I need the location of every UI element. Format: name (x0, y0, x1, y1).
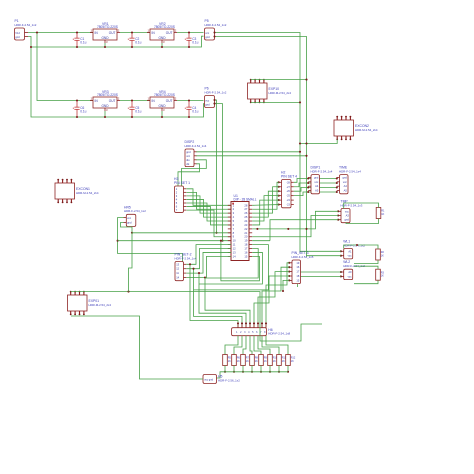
junction on pin22 wire 2 (287, 228, 289, 230)
junction TIME pin 1 (336, 177, 338, 179)
wire H6 pin4 to R8 (250, 336, 252, 355)
svg-text:gnd: gnd (127, 221, 132, 225)
wire wide inner loop to U1 pin15 (221, 241, 260, 281)
svg-text:HDR-M-2.54_2x4: HDR-M-2.54_2x4 (89, 303, 112, 307)
svg-text:0.1u: 0.1u (135, 40, 141, 44)
wire VR2 gnd to rail (161, 43, 163, 47)
wire WL2.A0 left (294, 272, 341, 284)
wire EXP10 bottom rail to vcc vertical (251, 101, 300, 103)
svg-text:16: 16 (244, 250, 247, 254)
svg-text:0.1u: 0.1u (80, 40, 86, 44)
connector PIN_SET-2 HDR-F-2.54_1x4 (175, 262, 184, 281)
connector H2 PIN SET 4 pin dot (278, 190, 280, 192)
wire vcc rail to vertical x300 (215, 33, 301, 253)
capacitor C5 (128, 101, 135, 118)
junction P6 vcc (213, 99, 215, 101)
wire H6 pin5 to PIN_SET-3 (254, 276, 289, 328)
junction C2 top (131, 31, 133, 33)
svg-text:1K: 1K (381, 254, 384, 257)
junction HR5 vcc at pin10 wire (117, 240, 119, 242)
connector PIN_SET-3 HDR-F-2.54_1x5 pin dot (288, 262, 290, 264)
svg-text:HDR-F-2.54_1x2: HDR-F-2.54_1x2 (15, 23, 37, 27)
svg-text:11: 11 (233, 243, 236, 247)
resistor R3 1K (376, 269, 381, 280)
svg-text:1K: 1K (282, 360, 285, 363)
wire U1 pin25 to H2 row3 (252, 191, 279, 217)
wire R5 bottom (224, 366, 226, 372)
wire PIN_SET-2 pin3 to U1 pin13 (186, 252, 231, 273)
svg-text:HDR-F-2.54_1x4: HDR-F-2.54_1x4 (175, 256, 197, 260)
wire VR3.OUT to VR4.IN (120, 100, 150, 102)
junction HR5 gnd at rail (131, 232, 133, 234)
connector PIN_SET-3 HDR-F-2.54_1x5 pin dot (288, 279, 290, 281)
wire R3 bottom (354, 280, 378, 284)
connector WL1 HDR-F-2.54_1x2 pin dot (340, 255, 342, 257)
junction P5 gnd (213, 35, 215, 37)
junction EXP10 bottom rail (299, 101, 301, 103)
resistor R10 1K (268, 355, 273, 366)
svg-text:17: 17 (244, 247, 247, 251)
junction P6 gnd (213, 103, 215, 105)
svg-text:13: 13 (233, 250, 236, 254)
connector WL1 HDR-F-2.54_1x2 pin dot (340, 250, 342, 252)
svg-text:HDR-M-2.54_2x4: HDR-M-2.54_2x4 (355, 128, 378, 132)
wire HR5.gnd drop (121, 223, 133, 233)
resistor R12 1K (286, 355, 291, 366)
regulator VR1 7805/TO-220S (93, 29, 117, 40)
wire HR5 gnd down to EXP01 rail (129, 233, 133, 292)
wire EXP01 top rail (71, 292, 322, 341)
IC U1 DIP-28 (231, 202, 249, 261)
connector DISP2 HDR-F-2.54_1x4 (185, 149, 194, 167)
svg-text:OUT: OUT (109, 31, 116, 35)
wire H6 pin7 to R11 (262, 336, 279, 355)
svg-text:gnd: gnd (15, 35, 20, 39)
svg-text:1K: 1K (381, 275, 384, 278)
resistor R11 1K (277, 355, 282, 366)
regulator VR3 7805/TO-220S (93, 97, 117, 108)
resistor R2 1K (376, 249, 381, 260)
wire H3 pin7 to U1 pin9 (187, 210, 232, 237)
junction fan left branch 3 (198, 272, 200, 274)
H6 pin dot (249, 322, 251, 324)
svg-text:22: 22 (244, 227, 247, 231)
junction R8 at rail (251, 371, 253, 373)
wire R6 bottom (233, 366, 235, 372)
capacitor C1 (73, 33, 80, 48)
wire H5 to EXP01 bottom rail (71, 316, 203, 379)
svg-text:24: 24 (244, 219, 247, 223)
junction C1 top (76, 31, 78, 33)
svg-text:A1: A1 (348, 249, 352, 253)
wire U1 pin26 to H2 row2 (252, 187, 279, 213)
junction VR2 gnd at rail (161, 46, 163, 48)
resistor R1 1K (376, 208, 381, 219)
wire H6 pin1 to R5 (225, 336, 238, 355)
wire H3 pin3 to U1 pin3 (187, 196, 232, 213)
junction V12 branch (36, 31, 38, 33)
svg-text:HDR-F-2.54_1x2: HDR-F-2.54_1x2 (205, 91, 227, 95)
wire H2 row4 to DISP1/TIME bus (294, 192, 337, 196)
junction R5 at rail (224, 371, 226, 373)
svg-text:HDR-F-2.56_1x2: HDR-F-2.56_1x2 (218, 378, 240, 382)
wire fan left 3 to H6 (199, 273, 246, 328)
junction gnd vertical at pin22 wire (305, 228, 307, 230)
junction DISP1 pin 3 (307, 186, 309, 188)
wire resistor bottom rail (225, 371, 288, 373)
wire DISP2.vcc to gnd vertical (196, 155, 306, 157)
connector P6 HDR-F-2.54_1x2 (205, 96, 215, 108)
connector EXP10 HDR-M-2.54_2x4 (248, 83, 268, 99)
svg-text:HDR-F-2.54_1x4: HDR-F-2.54_1x4 (311, 169, 333, 173)
wire HR5.vcc loop to PIN_SET-2 (118, 218, 183, 262)
wire PIN_SET-2 pin1 to U1 pin11 (186, 245, 231, 265)
svg-text:A4: A4 (315, 184, 319, 188)
wire R2 bottom (354, 260, 378, 264)
wire U1 pin17 wrap under (205, 249, 258, 278)
junction VR3 gnd at rail (104, 116, 106, 118)
wire H3 pin2 to U1 pin2 (187, 192, 232, 209)
connector PIN_SET-3 HDR-F-2.54_1x5 (292, 260, 301, 284)
connector H6 HDR-F-2.54_1x8 (232, 328, 267, 336)
connector P5 HDR-F-2.54_1x2 (205, 28, 215, 40)
H6 pin dot (245, 322, 247, 324)
connector TMP HDR-F-2.54_1x3 pin dot (337, 219, 339, 221)
wire DISP2.gnd to vcc vertical (196, 151, 300, 153)
wire P6.vcc down to rail (215, 100, 217, 233)
junction fan left branch 1 (189, 263, 191, 265)
junction R11 at rail (278, 371, 280, 373)
junction R2 top wire (356, 244, 358, 246)
junction TIME pin 4 (336, 191, 338, 193)
wire PIN_SET-3 pin5 branch (283, 280, 289, 291)
wire fan left 1 to H6 (190, 264, 238, 327)
junction EXP01 top rail (127, 291, 129, 293)
connector H2 PIN SET 4 pin dot (278, 181, 280, 183)
junction C1 bottom (76, 46, 78, 48)
H6 pin dot (253, 322, 255, 324)
svg-text:0.1u: 0.1u (192, 109, 198, 113)
wire R1 bottom to TMP (346, 219, 379, 224)
resistor R9 1K (259, 355, 264, 366)
junction P5 vcc (213, 31, 215, 33)
wire R2 top (344, 245, 378, 249)
capacitor C6 (73, 101, 80, 118)
junction VR1 gnd at rail (104, 46, 106, 48)
svg-text:A3: A3 (346, 214, 350, 218)
svg-text:0.1u: 0.1u (192, 40, 198, 44)
wire H2 row3 to DISP1/TIME bus (294, 188, 337, 192)
svg-text:HDR-F-2.54_1x8: HDR-F-2.54_1x8 (268, 332, 290, 336)
junction inner loop branch (220, 240, 222, 242)
wire H2 row1 to DISP1/TIME bus (294, 179, 337, 183)
connector DISP1 HDR-F-2.54_1x4 (311, 175, 320, 194)
wire fan left 2 to H6 (194, 269, 243, 328)
wire VR3 gnd to rail (104, 111, 106, 117)
svg-text:23: 23 (244, 223, 247, 227)
svg-text:26: 26 (244, 211, 247, 215)
wire H6 pin8 to PIN_SET-3 (266, 263, 289, 328)
junction R9 at rail (260, 371, 262, 373)
junction DISP1 pin 1 (307, 177, 309, 179)
wire rail to H5 (217, 372, 226, 378)
junction C4 top (188, 99, 190, 101)
svg-text:A5: A5 (344, 189, 348, 193)
wire VR4.OUT to P6 (177, 100, 204, 102)
junction C3 top (188, 31, 190, 33)
svg-text:1K: 1K (228, 360, 231, 363)
wire H3 pin6 to U1 pin6 (187, 207, 232, 225)
svg-text:1K: 1K (264, 360, 267, 363)
svg-text:DIP - 28 SMALL: DIP - 28 SMALL (234, 198, 257, 202)
connector EXP01 HDR-M-2.54_2x4 (68, 295, 88, 311)
wire H6 pin2 to R6 (234, 336, 242, 355)
connector H2 PIN SET 4 pin dot (278, 195, 280, 197)
wire EXCON2 to power verticals (300, 139, 337, 143)
wire DISP2.clk down to H3 (178, 164, 200, 190)
svg-text:7805/TO-220S: 7805/TO-220S (154, 25, 175, 29)
connector WL2 HDR-F-2.54_1x2 (344, 269, 353, 279)
junction DISP1 pin 2 (307, 182, 309, 184)
wire U1 pin18 wrap under (194, 245, 269, 290)
svg-text:1K: 1K (246, 360, 249, 363)
junction fan left branch 2 (192, 268, 194, 270)
junction C4 bottom (188, 116, 190, 118)
wire U1 pin20 to TMP.A3 (252, 216, 338, 237)
wire R12 bottom (287, 366, 289, 372)
resistor R8 1K (250, 355, 255, 366)
capacitor C2 (128, 33, 135, 48)
wire R3 top (354, 266, 378, 269)
svg-text:A4: A4 (344, 184, 348, 188)
wire H6 pin6 to R10 (258, 336, 270, 355)
junction C6 top (76, 99, 78, 101)
wire H3 pin5 to U1 pin5 (187, 203, 232, 221)
junction C3 bottom (188, 46, 190, 48)
svg-text:15: 15 (244, 254, 247, 258)
connector H3 PIN SET 1 (175, 186, 184, 212)
wire U1 pin27 to H2 row1 (252, 182, 279, 209)
svg-text:21: 21 (244, 231, 247, 235)
svg-text:V12: V12 (15, 31, 20, 35)
svg-text:HDR-M-2.54_2x4: HDR-M-2.54_2x4 (269, 91, 292, 95)
svg-text:PIN SET 4: PIN SET 4 (281, 174, 297, 178)
connector H5 HDR-F-2.56_1x2 (203, 375, 217, 384)
svg-text:14: 14 (233, 254, 236, 258)
wire H6 pin5 to R9 (254, 336, 261, 355)
junction C5 bottom (131, 116, 133, 118)
resistor R6 1K (232, 355, 237, 366)
wire H6 pin3 to R7 (243, 336, 246, 355)
wire VR2.OUT to P5 (177, 32, 204, 34)
wire VR4 gnd to rail (161, 111, 163, 117)
svg-text:28: 28 (244, 203, 247, 207)
wire H6 pin7 to PIN_SET-3 (262, 267, 289, 328)
connector TIME HDR-F-2.54_1x4 (340, 175, 349, 194)
wire U1 pin22 to TMP.vcc (252, 211, 338, 229)
wire fan left 4 to H6 (205, 278, 250, 328)
connector PIN_SET-3 HDR-F-2.54_1x5 pin dot (288, 271, 290, 273)
resistor R7 1K (241, 355, 246, 366)
connector WL1 HDR-F-2.54_1x2 (344, 249, 353, 259)
wire WL1.vcc to gnd vertical (307, 255, 341, 257)
connector P1 HDR-F-2.54_1x2 (15, 28, 25, 40)
junction PIN_SET-3 pin5 (282, 290, 284, 292)
wire WL1.A1 to vcc vertical (300, 250, 341, 252)
connector PIN_SET-3 HDR-F-2.54_1x5 pin dot (288, 275, 290, 277)
wire VR1 gnd to rail (104, 43, 106, 47)
wire to TMP.gnd (270, 220, 338, 241)
junction R6 at rail (233, 371, 235, 373)
wire WL2.vcc left (298, 276, 341, 287)
junction R7 at rail (242, 371, 244, 373)
wire U1 pin16 wrap under (199, 252, 262, 284)
junction EXCON2 wire at vcc vertical (299, 142, 301, 144)
svg-text:OUT: OUT (166, 31, 173, 35)
svg-text:1K: 1K (237, 360, 240, 363)
wire H2 row2 to DISP1/TIME bus (294, 183, 337, 187)
wire U1 pin24 to H2 row4 (252, 196, 279, 221)
wire gnd down to rail row2 (31, 47, 205, 117)
svg-text:HDR-F-2.54_1x2: HDR-F-2.54_1x2 (124, 209, 146, 213)
connector WL2 HDR-F-2.54_1x2 pin dot (340, 275, 342, 277)
junction DISP2 gnd (299, 151, 301, 153)
svg-text:19: 19 (244, 239, 247, 243)
svg-text:gnd: gnd (186, 150, 191, 154)
wire U1 pin19 stub right (252, 240, 270, 242)
junction C5 top (131, 99, 133, 101)
svg-text:12: 12 (233, 247, 236, 251)
wire P1.gnd rail row1 (28, 36, 204, 47)
wire long to U1 pin10 (118, 240, 231, 242)
H6 pin dot (237, 322, 239, 324)
svg-text:0.1u: 0.1u (135, 109, 141, 113)
svg-text:7805/TO-220S: 7805/TO-220S (154, 93, 175, 97)
wire EXP10 top rail to gnd vertical (251, 79, 307, 81)
H6 pin dot (257, 322, 259, 324)
svg-text:1K: 1K (381, 213, 384, 216)
wire VR1.OUT to VR2.IN (120, 32, 150, 34)
connector EXCON2 HDR-M-2.54_2x4 (334, 120, 354, 136)
svg-text:gnd: gnd (205, 102, 210, 106)
junction on pin22 wire (256, 228, 258, 230)
capacitor C4 (185, 101, 192, 118)
wire H3 pin1 to U1 pin1 (187, 189, 232, 206)
wire PIN_SET-2 pin4 to U1 pin14 (186, 256, 231, 277)
regulator VR4 7805/TO-220S (150, 97, 174, 108)
wire U1 pin28 to H2 row6 (252, 204, 279, 207)
junction TIME pin 3 (336, 186, 338, 188)
connector TMP HDR-F-2.54_1x3 pin dot (337, 210, 339, 212)
wire gnd rail to U1 pin8 (132, 232, 231, 234)
H6 pin dot (261, 322, 263, 324)
wire R10 bottom (269, 366, 271, 372)
connector H2 PIN SET 4 pin dot (278, 199, 280, 201)
wire P6.gnd down to rail (215, 104, 223, 241)
svg-text:dio: dio (186, 158, 190, 162)
wire U1 pin23 to H2 row5 (252, 200, 279, 225)
wire PIN_SET-2 pin2 to U1 pin12 (186, 249, 231, 269)
connector TMP HDR-F-2.54_1x3 (341, 209, 350, 223)
svg-text:18: 18 (244, 243, 247, 247)
svg-text:27: 27 (244, 207, 247, 211)
junction C6 bottom (76, 116, 78, 118)
wire R8 bottom (251, 366, 253, 372)
svg-text:gnd: gnd (344, 218, 349, 222)
junction DISP1 pin 4 (307, 191, 309, 193)
resistor R5 1K (223, 355, 228, 366)
regulator VR2 7805/TO-220S (150, 29, 174, 40)
svg-text:25: 25 (244, 215, 247, 219)
junction VR4 gnd at rail (161, 116, 163, 118)
svg-text:HDR-F-2.54_1x4: HDR-F-2.54_1x4 (339, 169, 361, 173)
junction R12 at rail (287, 371, 289, 373)
svg-text:A5: A5 (315, 189, 319, 193)
connector H2 PIN SET 4 pin dot (278, 204, 280, 206)
svg-text:HDR-F-2.54_1x5: HDR-F-2.54_1x5 (292, 255, 314, 259)
H6 pin dot (265, 322, 267, 324)
junction gnd branch (30, 46, 32, 48)
connector WL2 HDR-F-2.54_1x2 pin dot (340, 271, 342, 273)
svg-text:gnd: gnd (205, 35, 210, 39)
wire H3 pin4 to U1 pin4 (187, 199, 232, 217)
junction P6 gnd at rail (221, 240, 223, 242)
svg-text:OUT: OUT (166, 99, 173, 103)
connector H2 PIN SET 4 (282, 180, 292, 208)
svg-text:10: 10 (233, 239, 236, 243)
wire gnd rail to vertical x306.5 (215, 37, 307, 257)
wire R9 bottom (260, 366, 262, 372)
wire H6 pin8 to R12 (266, 336, 288, 355)
svg-text:PIN SET 1: PIN SET 1 (174, 181, 190, 185)
svg-text:vcc gnd: vcc gnd (204, 378, 213, 382)
connector HR5 HDR-F-2.54_1x2 (126, 214, 136, 226)
junction fan left branch 4 (204, 276, 206, 278)
wire R1 top to TMP (344, 203, 379, 209)
wire DISP2.dio down to H3 (182, 160, 207, 187)
svg-text:1K: 1K (255, 360, 258, 363)
wire H6 pin6 to PIN_SET-3 (258, 272, 289, 328)
wire R7 bottom (242, 366, 244, 372)
svg-text:7805/TO-220S: 7805/TO-220S (97, 25, 118, 29)
wire V12 to VR1.IN (28, 32, 95, 34)
svg-text:7805/TO-220S: 7805/TO-220S (97, 93, 118, 97)
junction TIME pin 2 (336, 182, 338, 184)
svg-text:gnd: gnd (314, 175, 319, 179)
connector H2 PIN SET 4 pin dot (278, 186, 280, 188)
connector TMP HDR-F-2.54_1x3 pin dot (337, 214, 339, 216)
junction EXCON2 wire at gnd vertical (305, 142, 307, 144)
svg-text:1K: 1K (291, 360, 294, 363)
junction C2 bottom (131, 46, 133, 48)
connector EXCON1 HDR-M-2.54_2x4 (55, 183, 75, 199)
capacitor C3 (185, 33, 192, 48)
svg-text:0.1u: 0.1u (80, 109, 86, 113)
connector PIN_SET-3 HDR-F-2.54_1x5 pin dot (288, 266, 290, 268)
svg-text:A0: A0 (348, 270, 352, 274)
junction P6 vcc at rail (215, 232, 217, 234)
H6 pin dot (241, 322, 243, 324)
svg-text:HDR-M-2.54_2x4: HDR-M-2.54_2x4 (76, 191, 99, 195)
junction EXP10 top rail (305, 79, 307, 81)
svg-text:HDR-F-2.54_1x2: HDR-F-2.54_1x2 (205, 23, 227, 27)
svg-text:OUT: OUT (109, 99, 116, 103)
wire V12 down to VR3.IN (37, 33, 95, 101)
svg-text:HDR-F-2.54_1x4: HDR-F-2.54_1x4 (185, 144, 207, 148)
svg-text:1K: 1K (273, 360, 276, 363)
junction DISP2 vcc (305, 155, 307, 157)
svg-text:20: 20 (244, 235, 247, 239)
